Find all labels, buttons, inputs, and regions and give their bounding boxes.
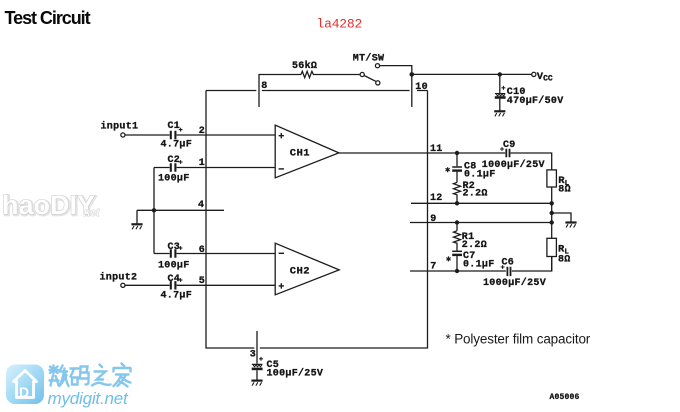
svg-text:470µF/50V: 470µF/50V	[507, 95, 564, 107]
svg-text:100µF: 100µF	[158, 260, 190, 271]
svg-text:C4: C4	[168, 274, 181, 285]
svg-text:56kΩ: 56kΩ	[292, 60, 317, 72]
svg-text:4: 4	[198, 200, 204, 211]
svg-text:CH2: CH2	[290, 265, 310, 277]
svg-text:100µF/25V: 100µF/25V	[267, 368, 324, 380]
svg-text:haoDIY: haoDIY	[2, 190, 95, 220]
svg-text:100µF: 100µF	[158, 173, 190, 184]
svg-text:8Ω: 8Ω	[558, 255, 571, 266]
svg-text:10: 10	[415, 82, 428, 93]
svg-text:C2: C2	[168, 155, 181, 166]
svg-text:CH1: CH1	[290, 148, 310, 160]
svg-text:8: 8	[261, 81, 267, 92]
svg-text:la4282: la4282	[317, 17, 363, 32]
svg-text:C6: C6	[502, 258, 515, 269]
svg-text:0.1µF: 0.1µF	[463, 260, 495, 271]
svg-text:C3: C3	[168, 242, 181, 253]
svg-text:9: 9	[430, 214, 436, 225]
svg-text:12: 12	[430, 193, 443, 204]
svg-text:8Ω: 8Ω	[558, 185, 571, 196]
svg-text:D: D	[19, 384, 29, 400]
svg-text:MT/SW: MT/SW	[353, 53, 385, 65]
svg-text:5: 5	[199, 276, 205, 287]
svg-text:7: 7	[430, 262, 436, 273]
svg-text:input1: input1	[101, 121, 139, 133]
svg-text:4.7µF: 4.7µF	[161, 139, 193, 150]
svg-text:3: 3	[250, 350, 256, 361]
svg-text:net: net	[84, 207, 100, 219]
svg-text:Test Circuit: Test Circuit	[5, 8, 91, 28]
svg-text:2: 2	[199, 126, 205, 137]
svg-text:C1: C1	[168, 121, 181, 132]
svg-text:VCC: VCC	[537, 71, 553, 84]
svg-text:4.7µF: 4.7µF	[161, 290, 193, 301]
svg-text:2.2Ω: 2.2Ω	[462, 240, 487, 251]
svg-text:1000µF/25V: 1000µF/25V	[483, 277, 546, 289]
svg-text:2.2Ω: 2.2Ω	[463, 188, 488, 199]
svg-text:C9: C9	[503, 140, 516, 151]
svg-text:1: 1	[199, 158, 205, 169]
svg-text:A05006: A05006	[550, 393, 580, 402]
svg-text:mydigit.net: mydigit.net	[48, 389, 129, 408]
svg-text:0.1µF: 0.1µF	[464, 170, 496, 181]
svg-text:6: 6	[199, 245, 205, 256]
svg-text:* Polyester film capacitor: * Polyester film capacitor	[446, 332, 591, 347]
svg-text:11: 11	[430, 144, 443, 155]
svg-text:input2: input2	[100, 271, 138, 283]
